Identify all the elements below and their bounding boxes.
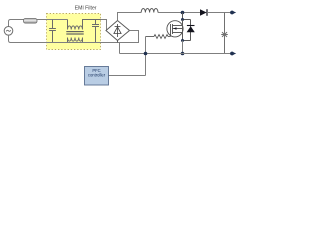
wire: EMI bottom rail to bridge wrap bbox=[47, 42, 140, 44]
capacitor C3 (output bulk) bbox=[221, 13, 228, 54]
fuse F1 bbox=[24, 19, 38, 24]
wire: PFC controller to riser bbox=[109, 75, 146, 77]
wire: top rail inductor to diode bbox=[158, 12, 200, 14]
diode D2 (body diode) bbox=[187, 20, 195, 41]
wire: source top to fuse bbox=[9, 20, 24, 27]
common-mode choke L1 bbox=[66, 20, 100, 43]
bottom winding bbox=[67, 38, 69, 43]
wire: PFC gate drive riser bbox=[145, 37, 147, 76]
diode D1 (boost) bbox=[200, 9, 207, 16]
wire: bridge right corner wrap to bottom rail bbox=[130, 31, 139, 43]
PFC controller U1 bbox=[85, 67, 109, 86]
wire: body diode bottom to source bbox=[183, 40, 191, 42]
wire: fuse to EMI filter top rail bbox=[37, 19, 68, 21]
ac source V1 bbox=[4, 27, 13, 36]
wire: EMI output to bridge left corner bbox=[101, 20, 107, 31]
node: source-return junction bbox=[181, 52, 185, 56]
top winding bbox=[67, 20, 69, 30]
inductor L2 (boost) bbox=[141, 8, 158, 12]
svg-text:controller: controller bbox=[88, 73, 106, 78]
wire: bridge top to top rail bbox=[118, 13, 142, 21]
EMI filter block bbox=[47, 14, 101, 50]
wire: source bottom to bottom rail bbox=[9, 35, 47, 42]
node: source-diode junction bbox=[181, 39, 184, 42]
transistor Q1 (MOSFET) bbox=[167, 20, 183, 41]
wire: return rail riser from bridge bbox=[119, 43, 121, 54]
wire: drain branch bbox=[183, 13, 191, 20]
wire: return rail bbox=[120, 53, 232, 55]
output terminal minus (arrow) bbox=[230, 52, 236, 56]
node: drain junction on top rail bbox=[181, 11, 185, 15]
wire: bridge bottom stub bbox=[117, 41, 119, 43]
svg-text:EMI Filter: EMI Filter bbox=[75, 6, 97, 12]
node: riser-return junction bbox=[144, 52, 148, 56]
capacitor C1 (X-cap) bbox=[49, 20, 56, 43]
core bars bbox=[66, 31, 83, 32]
capacitor C2 (X-cap) bbox=[92, 20, 99, 43]
bridge internal diode bbox=[114, 24, 121, 37]
wire: top rail diode to output bbox=[207, 12, 232, 14]
resistor R1 (gate) bbox=[146, 35, 171, 39]
output terminal plus (arrow) bbox=[230, 11, 236, 15]
bridge rectifier BR1 bbox=[106, 21, 130, 41]
node: drain-diode junction bbox=[181, 18, 184, 21]
wire: source down to return rail bbox=[182, 41, 184, 54]
